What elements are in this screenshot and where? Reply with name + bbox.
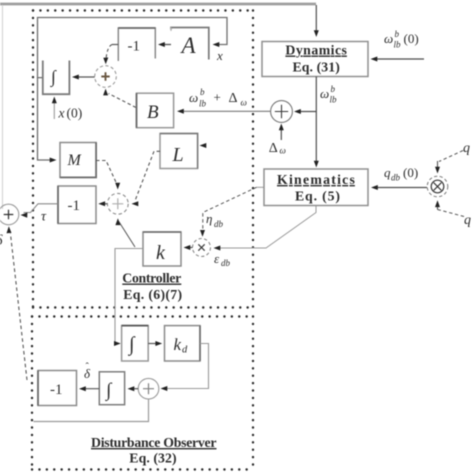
svg-text:Δ: Δ: [269, 141, 278, 156]
svg-text:A: A: [180, 33, 197, 58]
label q (top right, cut): [463, 141, 470, 156]
wire A output to -1: [158, 42, 171, 47]
svg-text:ω: ω: [384, 31, 393, 46]
wire X1 output into k: [184, 245, 193, 250]
wire L output dashed into sum S3 right: [132, 151, 161, 206]
wire S1 to integrator with arrow: [72, 75, 95, 80]
label x (A input): [216, 48, 223, 63]
svg-text:ω: ω: [280, 146, 286, 156]
svg-text:ω: ω: [189, 90, 198, 105]
svg-text:∫: ∫: [50, 67, 57, 88]
wire omega+delta into B: [177, 109, 271, 114]
svg-text:q: q: [463, 141, 470, 156]
multiplier junction X2 (quaternion, circled x with dashed ring): [427, 176, 448, 197]
label omega_lb^b (between boxes): [320, 84, 337, 105]
block A: [171, 28, 209, 60]
svg-text:B: B: [147, 102, 159, 123]
block B: [137, 93, 174, 128]
wire x feedback: integrator out, up, across top, down into A: [38, 18, 228, 78]
svg-text:Eq. (6)(7): Eq. (6)(7): [123, 287, 182, 303]
svg-text:b: b: [395, 29, 400, 39]
label omega_lb^b (0): [384, 29, 419, 50]
svg-text:ε: ε: [214, 251, 220, 266]
wire omega(0) into Dynamics right: [371, 57, 425, 62]
svg-text:(0): (0): [67, 106, 83, 121]
label Controller: [122, 271, 182, 304]
wire k path diagonal up into S3 bottom: [115, 218, 135, 247]
wire branch into sum S2 right: [294, 109, 316, 114]
svg-text:δ: δ: [0, 233, 4, 249]
wire kd output right, down, into sum S5: [161, 344, 209, 392]
wire eta dashed from Kinematics into X1 top: [200, 187, 264, 237]
svg-text:Controller: Controller: [122, 271, 181, 286]
svg-text:q: q: [384, 165, 391, 180]
wire left edge vertical from sum S6 up: [2, 5, 4, 209]
svg-text:x: x: [216, 48, 223, 63]
wire k output left and down to observer integrator: [114, 249, 143, 347]
label delta-hat (cut at left edge): [0, 233, 4, 249]
wire S5 feedback bottom loop: [34, 399, 149, 422]
svg-text:Dynamics: Dynamics: [285, 43, 347, 58]
svg-text:b: b: [200, 87, 205, 97]
label Delta_omega: [269, 141, 286, 156]
label delta-hat (observer): [84, 362, 91, 381]
svg-text:+: +: [214, 90, 221, 105]
block kd: [165, 326, 201, 361]
wire vertical into Dynamics top with arrow: [314, 5, 319, 37]
svg-text:db: db: [391, 173, 401, 183]
wire S5 output into integrator2: [128, 386, 139, 391]
block integrator (state, open-top U): [43, 61, 70, 95]
svg-text:db: db: [221, 258, 231, 268]
svg-text:x: x: [58, 106, 65, 121]
block -1 (controller): [58, 186, 96, 224]
wire B dashed diagonal into S1 bottom: [103, 89, 136, 108]
svg-text:db: db: [214, 219, 224, 229]
wire -1 output curve down to sum S1: [103, 45, 118, 65]
svg-text:ω: ω: [241, 98, 247, 108]
svg-text:∫: ∫: [127, 334, 136, 357]
svg-text:M: M: [67, 152, 83, 169]
svg-text:lb: lb: [394, 40, 402, 50]
wire integrator2 output into -1 (observer): [79, 386, 99, 391]
sum junction S1 (top left +): [95, 66, 117, 88]
svg-text:(0): (0): [403, 165, 418, 180]
svg-text:q: q: [464, 213, 471, 228]
svg-text:d: d: [182, 345, 188, 356]
label epsilon_db: [214, 251, 231, 268]
svg-text:τ: τ: [41, 210, 47, 225]
svg-text:lb: lb: [330, 95, 338, 105]
svg-text:Δ: Δ: [229, 91, 238, 106]
svg-text:ω: ω: [320, 86, 329, 101]
label eta_db: [206, 211, 224, 229]
wire dashed delta-hat from observer up into S6 bottom: [7, 226, 28, 380]
block k: [143, 232, 181, 266]
wire epsilon feedback from Kinematics bottom into X1 right: [214, 206, 317, 251]
wire tau from -1 to sum S6: [21, 204, 59, 218]
block -1 (top): [118, 28, 155, 61]
svg-text:η: η: [206, 211, 212, 226]
wire integrator1 to kd: [148, 341, 162, 346]
block -1 (observer): [38, 371, 77, 406]
label q (bottom right, cut): [464, 213, 471, 228]
label tau: [41, 210, 47, 225]
svg-text:lb: lb: [199, 99, 207, 109]
svg-text:L: L: [172, 144, 184, 166]
svg-text:k: k: [174, 335, 182, 354]
svg-text:Eq. (31): Eq. (31): [293, 60, 340, 76]
svg-text:Eq. (32): Eq. (32): [129, 451, 176, 467]
block Dynamics: [262, 42, 368, 77]
wire qdb from X2 into Kinematics right: [371, 185, 427, 190]
dotted box Disturbance Observer border: [32, 317, 253, 470]
sum junction S5 (observer +): [138, 378, 159, 399]
wire Delta_omega into S2 bottom: [279, 124, 284, 141]
svg-text:-1: -1: [128, 39, 141, 55]
label omega_lb^b + Delta_omega: [189, 87, 247, 109]
wire q top dashed into X2: [435, 151, 463, 174]
label x(0): [58, 106, 83, 121]
multiplier junction X1 (controller x): [193, 239, 211, 257]
svg-text:b: b: [331, 84, 336, 94]
wire S3 output into -1 (controller): [98, 201, 107, 206]
block Kinematics: [264, 169, 368, 206]
svg-text:k: k: [156, 242, 166, 264]
block M: [60, 143, 96, 178]
wire M output dashed into sum S3 top: [96, 161, 120, 190]
sum junction S3 (controller +, dashed): [107, 193, 128, 214]
svg-text:-1: -1: [68, 198, 81, 214]
svg-text:Eq. (5): Eq. (5): [295, 189, 340, 205]
svg-text:Kinematics: Kinematics: [277, 172, 356, 187]
block integrator (observer 2): [99, 372, 124, 405]
wire L input arrow stub: [200, 143, 207, 148]
label Disturbance Observer: [91, 435, 217, 467]
svg-text:-1: -1: [50, 382, 63, 398]
wire top feedback tau to Dynamics (gray): [0, 3, 316, 6]
svg-text:Disturbance Observer: Disturbance Observer: [91, 435, 217, 450]
wire q bottom dashed into X2: [435, 200, 466, 217]
wire x down to M with arrow: [38, 78, 57, 163]
wire Dynamics to Kinematics vertical: [314, 77, 319, 168]
block integrator (observer 1): [122, 326, 149, 361]
sum junction S6 (left edge +): [0, 204, 19, 225]
label q_db (0): [384, 165, 418, 183]
wire x(0) initial condition arrow: [52, 97, 57, 120]
dotted box Controller border: [33, 11, 253, 308]
svg-text:∫: ∫: [105, 380, 113, 402]
sum junction S2 (right +): [271, 101, 293, 123]
block L: [160, 134, 198, 169]
svg-text:(0): (0): [404, 31, 419, 46]
